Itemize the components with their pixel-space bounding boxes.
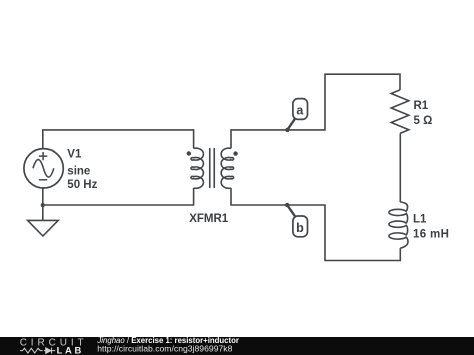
svg-text:LAB: LAB <box>57 345 84 355</box>
logo CircuitLab <box>20 337 88 355</box>
wire V1 top to XFMR1 primary top <box>43 130 194 149</box>
node ground junction dot <box>41 203 45 207</box>
resistor R1 <box>391 90 409 133</box>
svg-text:L1: L1 <box>413 214 427 226</box>
svg-text:http://circuitlab.com/cng3j896: http://circuitlab.com/cng3j896997k8 <box>97 344 232 354</box>
svg-text:sine: sine <box>67 165 90 177</box>
svg-text:5 Ω: 5 Ω <box>414 115 433 127</box>
wire secondary top to node a and R1 <box>231 74 400 148</box>
transformer phase dot primary <box>187 151 191 155</box>
transformer phase dot secondary <box>233 151 237 155</box>
inductor L1 <box>389 202 408 248</box>
node a flag <box>287 99 307 130</box>
wire L1 bottom to node b <box>231 188 400 261</box>
node a junction dot <box>285 128 289 132</box>
svg-text:b: b <box>296 221 304 235</box>
wire V1 bottom through ground node <box>42 188 44 221</box>
voltage source V1 <box>24 149 63 188</box>
transformer XFMR1 secondary winding <box>221 148 233 188</box>
svg-text:16 mH: 16 mH <box>413 228 449 240</box>
footer bar <box>0 337 474 355</box>
svg-text:50 Hz: 50 Hz <box>67 179 97 191</box>
transformer XFMR1 primary winding <box>191 148 203 188</box>
svg-text:V1: V1 <box>67 149 82 161</box>
svg-text:XFMR1: XFMR1 <box>189 213 229 225</box>
svg-text:R1: R1 <box>414 100 429 112</box>
ground <box>28 220 59 236</box>
wire primary bottom <box>43 188 194 205</box>
node b flag <box>287 205 307 237</box>
wire R1 to L1 <box>399 133 401 202</box>
node b junction dot <box>285 203 289 207</box>
transformer core <box>210 148 215 188</box>
svg-text:a: a <box>296 104 304 118</box>
